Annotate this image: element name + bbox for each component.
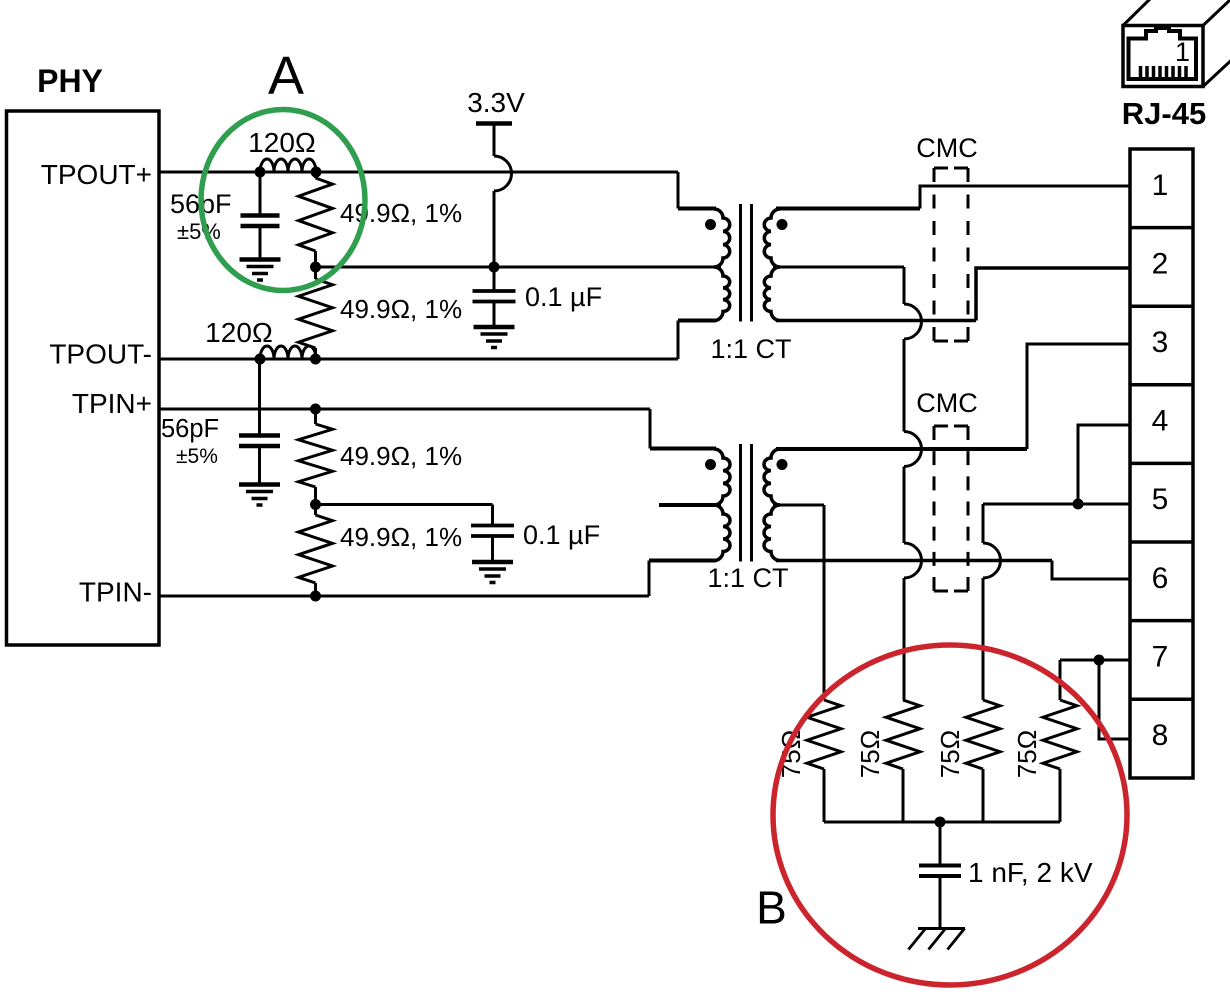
svg-text:0.1 µF: 0.1 µF (523, 520, 600, 550)
svg-text:TPIN-: TPIN- (79, 577, 152, 608)
svg-text:75Ω: 75Ω (855, 730, 885, 778)
svg-text:0.1 µF: 0.1 µF (525, 282, 602, 312)
svg-text:8: 8 (1152, 719, 1169, 752)
svg-text:RJ-45: RJ-45 (1122, 96, 1206, 131)
svg-text:A: A (268, 46, 304, 106)
svg-text:±5%: ±5% (176, 445, 218, 468)
svg-text:56pF: 56pF (161, 415, 219, 443)
svg-text:75Ω: 75Ω (935, 730, 965, 778)
svg-text:3: 3 (1152, 326, 1169, 359)
svg-text:49.9Ω, 1%: 49.9Ω, 1% (340, 522, 462, 552)
svg-text:TPIN+: TPIN+ (72, 388, 152, 419)
svg-text:PHY: PHY (37, 63, 103, 99)
svg-text:±5%: ±5% (177, 219, 221, 244)
svg-text:CMC: CMC (916, 388, 978, 418)
svg-text:1:1 CT: 1:1 CT (710, 334, 791, 364)
svg-text:1:1 CT: 1:1 CT (707, 563, 788, 593)
svg-text:49.9Ω, 1%: 49.9Ω, 1% (340, 441, 462, 471)
svg-text:1: 1 (1175, 37, 1190, 67)
svg-text:120Ω: 120Ω (248, 127, 316, 158)
svg-text:7: 7 (1152, 640, 1169, 673)
svg-text:TPOUT+: TPOUT+ (41, 159, 152, 190)
svg-text:TPOUT-: TPOUT- (49, 339, 152, 370)
svg-text:6: 6 (1152, 562, 1169, 595)
svg-text:CMC: CMC (916, 133, 978, 163)
svg-text:49.9Ω, 1%: 49.9Ω, 1% (340, 294, 462, 324)
svg-text:120Ω: 120Ω (205, 317, 273, 348)
svg-text:5: 5 (1152, 483, 1169, 516)
svg-text:75Ω: 75Ω (1012, 730, 1042, 778)
svg-text:1 nF, 2 kV: 1 nF, 2 kV (968, 857, 1093, 888)
svg-text:49.9Ω, 1%: 49.9Ω, 1% (340, 198, 462, 228)
svg-text:4: 4 (1152, 405, 1169, 438)
svg-text:1: 1 (1152, 169, 1169, 202)
svg-text:B: B (756, 882, 787, 934)
svg-text:2: 2 (1152, 247, 1169, 280)
svg-text:3.3V: 3.3V (467, 87, 525, 118)
